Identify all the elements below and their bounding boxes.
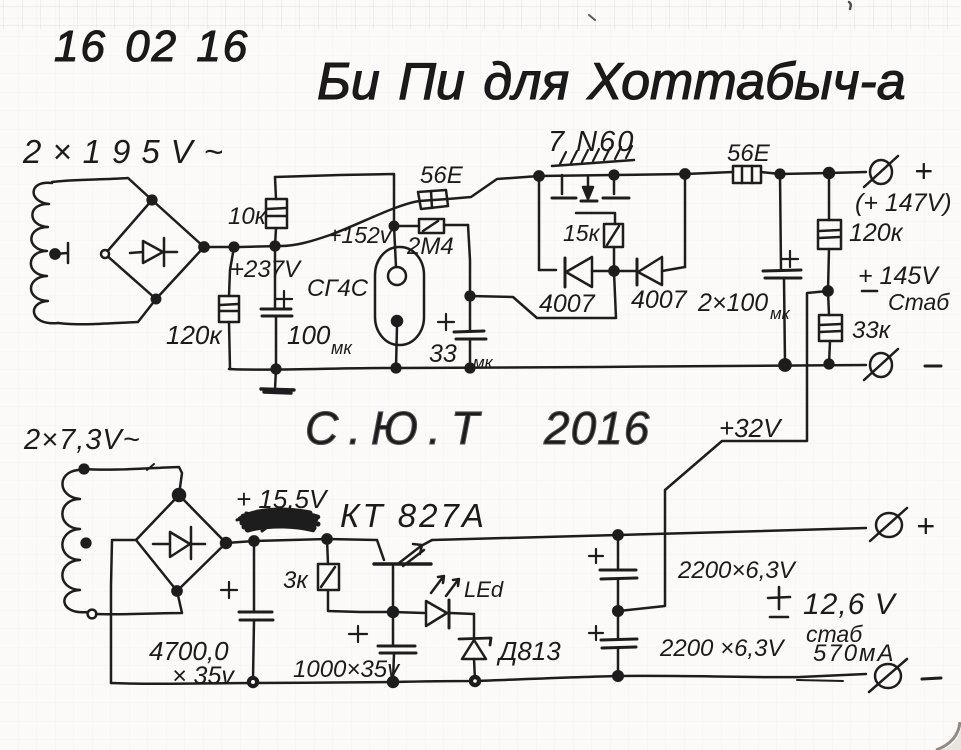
svg-text:Стаб: Стаб xyxy=(888,289,950,315)
svg-text:7 N60: 7 N60 xyxy=(548,126,635,158)
resistor 10k xyxy=(266,177,287,246)
scribble blot xyxy=(237,510,318,531)
junction dot 2200 top xyxy=(613,530,622,539)
svg-text:4007: 4007 xyxy=(539,290,596,318)
wire bridge2 minus to rail xyxy=(111,540,136,683)
plus-minus symbol 12.6V xyxy=(768,587,790,617)
mosfet Q1a xyxy=(552,175,576,198)
zener D813 xyxy=(459,614,491,686)
svg-text:2М4: 2М4 xyxy=(406,233,454,260)
terminal minus LV xyxy=(869,659,907,692)
svg-text:LEd: LEd xyxy=(464,577,504,602)
svg-text:С.Ю.Т: С.Ю.Т xyxy=(305,402,489,454)
tube SG4S envelope xyxy=(375,247,424,368)
svg-text:4007: 4007 xyxy=(631,286,688,314)
junction dot 2200 mid xyxy=(613,606,623,616)
capacitor 2200 first xyxy=(589,535,637,611)
svg-text:100: 100 xyxy=(287,320,331,350)
junction dot 33mk node xyxy=(466,292,475,301)
junction dot 120k takeoff xyxy=(824,168,834,178)
svg-text:570мА: 570мА xyxy=(813,640,896,667)
svg-text:+: + xyxy=(916,508,935,544)
mosfet block left edge xyxy=(538,176,541,270)
gate arrow xyxy=(581,177,597,201)
junction dot node A1 xyxy=(230,243,239,252)
mosfet Q1b xyxy=(603,175,629,198)
junction dot node A2 xyxy=(271,242,280,251)
minus small under +145V xyxy=(862,290,877,293)
svg-text:(+ 147V): (+ 147V) xyxy=(855,189,952,217)
svg-text:Би Пи для Хоттабыч-а: Би Пи для Хоттабыч-а xyxy=(317,53,906,111)
wire T1 bottom to bridge bottom xyxy=(58,299,156,324)
svg-text:33: 33 xyxy=(429,340,457,368)
7N60 underline and hatching xyxy=(552,146,634,166)
wire 10k top rail to tube xyxy=(275,174,396,267)
diode inside bridge D1 xyxy=(130,238,177,266)
svg-text:33к: 33к xyxy=(852,317,892,344)
junction dot 2x100mk rail xyxy=(779,359,790,370)
resistor 120k output xyxy=(818,173,841,291)
LED diode xyxy=(393,600,474,628)
transformer T1 winding xyxy=(31,183,58,324)
svg-text:+: + xyxy=(914,153,933,189)
svg-text:мк: мк xyxy=(473,353,494,372)
svg-text:Д813: Д813 xyxy=(496,636,561,666)
capacitor 2x100mk xyxy=(763,174,801,364)
transformer T2 winding xyxy=(62,470,88,612)
svg-text:2×195V~: 2×195V~ xyxy=(22,133,234,170)
junction dot rail mid xyxy=(610,171,619,180)
junction dot rail left xyxy=(534,171,543,180)
svg-text:+32V: +32V xyxy=(719,413,783,443)
wire bridge2 plus xyxy=(226,539,377,543)
capacitor 4700x35 xyxy=(221,541,273,687)
terminal plus LV xyxy=(870,508,907,541)
svg-text:120к: 120к xyxy=(849,219,904,247)
transformer T1 center tap xyxy=(50,243,68,263)
svg-text:120к: 120к xyxy=(166,320,223,350)
minus sign LV out xyxy=(922,678,941,679)
svg-text:+ 15,5V: + 15,5V xyxy=(236,484,329,514)
svg-text:КТ 827А: КТ 827А xyxy=(340,497,487,534)
svg-text:2200 ×6,3V: 2200 ×6,3V xyxy=(659,635,785,662)
resistor 120k left xyxy=(219,247,239,369)
diode inside bridge D2 xyxy=(153,527,205,559)
transformer T2 middle tap dot xyxy=(82,539,91,548)
junction dot 4700 xyxy=(249,536,258,545)
terminal minus HV xyxy=(864,349,898,380)
svg-text:15к: 15к xyxy=(563,220,601,246)
resistor 15k xyxy=(604,224,623,271)
diode VD2 4007 xyxy=(614,257,685,285)
terminal plus 147V xyxy=(864,156,898,187)
svg-text:12,6 V: 12,6 V xyxy=(803,588,898,621)
bottom rail HV xyxy=(229,365,866,370)
wire +32V takeoff xyxy=(619,291,828,611)
mosfet block right edge xyxy=(684,174,687,267)
junction dot base node xyxy=(388,607,398,617)
svg-text:2200×6,3V: 2200×6,3V xyxy=(677,557,797,584)
junction dot cap takeoff xyxy=(776,170,785,179)
resistor 56E series xyxy=(418,190,448,209)
wire emitter to output xyxy=(432,528,866,540)
svg-text:2016: 2016 xyxy=(543,402,650,454)
junction dot 33k rail xyxy=(825,360,834,369)
wire T2 bottom to bridge xyxy=(96,591,182,614)
transformer T2 bottom terminal xyxy=(88,610,97,619)
svg-text:10к: 10к xyxy=(228,203,268,230)
capacitor 100mk xyxy=(261,246,292,368)
bridge rectifier D1 diamond xyxy=(101,196,209,304)
capacitor 1000x35 xyxy=(349,612,416,681)
svg-text:СГ4С: СГ4С xyxy=(307,275,369,302)
wire bridge out to node A xyxy=(204,246,281,247)
junction dot 2200 bottom rail xyxy=(613,671,623,681)
rail double stroke LV xyxy=(797,680,843,681)
junction dot rail right xyxy=(680,169,689,178)
gate wire to 15k xyxy=(576,213,615,224)
minus sign HV out xyxy=(925,365,941,368)
svg-text:2×7,3V~: 2×7,3V~ xyxy=(23,424,141,456)
junction dot 33mk rail xyxy=(466,364,475,373)
LED arrows xyxy=(431,576,459,596)
diode VD1 4007 xyxy=(539,257,614,287)
junction dot 3k xyxy=(322,534,331,543)
wire T2 top to bridge xyxy=(84,467,182,495)
resistor 3k xyxy=(318,539,391,612)
wire 33mk node to diode junction xyxy=(470,272,616,318)
wire 56E to mosfet rail xyxy=(448,176,539,199)
ground xyxy=(261,365,294,393)
bridge rectifier D2 diamond xyxy=(136,489,231,596)
svg-text:+237V: +237V xyxy=(230,256,302,283)
svg-text:16 02 16: 16 02 16 xyxy=(54,22,249,71)
wire T1 top to bridge top xyxy=(52,178,152,200)
junction dot gate rail xyxy=(390,222,398,230)
page curl shadow bottom right xyxy=(936,722,961,750)
svg-text:56Е: 56Е xyxy=(420,162,464,189)
svg-text:+ 145V: + 145V xyxy=(858,262,940,290)
bottom rail LV xyxy=(111,674,866,684)
transistor KT827A xyxy=(374,540,432,611)
mosfet block top rail xyxy=(539,174,685,176)
svg-text:× 35v: × 35v xyxy=(172,662,235,690)
wire node A to 56E diagonal xyxy=(281,201,419,246)
junction dot divider xyxy=(823,286,832,295)
capacitor 2200 second xyxy=(589,611,637,675)
svg-text:3к: 3к xyxy=(283,567,309,594)
junction dot 1000 rail xyxy=(388,677,398,687)
transformer T2 top tap dot xyxy=(80,465,89,474)
junction dot diodes xyxy=(609,266,618,275)
svg-text:56Е: 56Е xyxy=(727,140,771,167)
resistor 33k xyxy=(819,291,842,364)
svg-text:мк: мк xyxy=(331,338,353,358)
svg-text:2×100: 2×100 xyxy=(697,289,768,317)
resistor 56E output xyxy=(685,166,866,183)
wire 2M4 to 33mk node xyxy=(468,225,470,295)
capacitor 33mk xyxy=(438,296,486,368)
svg-text:мк: мк xyxy=(770,304,791,323)
stray pen mark top right xyxy=(849,2,851,9)
svg-text:+152v: +152v xyxy=(328,222,393,248)
junction dot tube bottom rail xyxy=(392,364,401,373)
resistor 2M4 xyxy=(394,219,468,233)
svg-text:1000×35v: 1000×35v xyxy=(293,656,401,683)
redraw tick on T2 top wire xyxy=(147,464,154,470)
